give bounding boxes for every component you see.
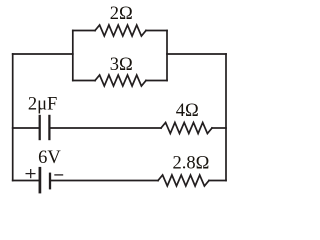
wire: box bottom rail left lead	[73, 80, 95, 82]
capacitor C1 right plate	[48, 115, 50, 140]
resistor R1 2ohm	[95, 25, 146, 36]
wire: box top rail right lead	[146, 30, 167, 32]
battery V1 negative (short) plate	[49, 173, 51, 190]
capacitor C1 left plate	[39, 115, 41, 140]
wire: bottom row right lead	[209, 180, 226, 182]
wire: outer left side	[12, 54, 14, 181]
svg-text:4Ω: 4Ω	[176, 101, 199, 121]
battery V1 positive (long) plate	[39, 167, 42, 194]
resistor R4 2.8ohm	[158, 175, 209, 186]
wire: outer top-left segment	[13, 53, 73, 55]
resistor R3 4ohm	[161, 123, 212, 134]
wire: middle row right lead	[212, 127, 226, 129]
wire: middle row left lead to capacitor	[13, 127, 39, 129]
svg-text:2Ω: 2Ω	[110, 4, 133, 24]
wire: bottom row left lead to battery	[13, 180, 39, 182]
resistor R2 3ohm	[95, 75, 146, 86]
wire: middle row between capacitor and 4ohm	[51, 127, 162, 129]
battery minus sign	[54, 174, 63, 176]
wire: outer top-right segment	[167, 53, 226, 55]
wire: parallel box left edge	[72, 31, 74, 81]
svg-text:2.8Ω: 2.8Ω	[172, 153, 209, 173]
wire: outer right side	[225, 54, 227, 181]
svg-text:3Ω: 3Ω	[110, 55, 133, 75]
wire: box top rail left lead	[73, 30, 95, 32]
svg-text:2μF: 2μF	[28, 94, 57, 114]
svg-text:6V: 6V	[38, 148, 61, 168]
wire: parallel box right edge	[166, 31, 168, 81]
wire: bottom row between battery and 2.8ohm	[51, 180, 158, 182]
wire: box bottom rail right lead	[146, 80, 167, 82]
battery plus sign	[26, 169, 36, 178]
